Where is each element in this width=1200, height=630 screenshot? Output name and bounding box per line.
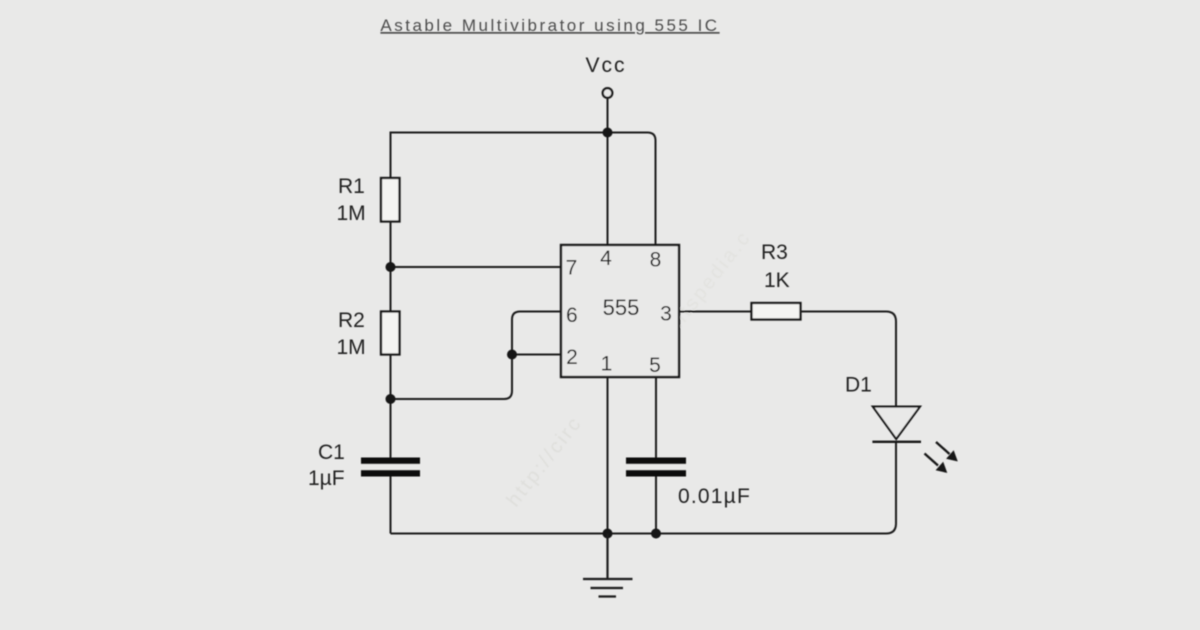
LED emission arrow 1	[936, 442, 957, 460]
wire: Vcc stem	[607, 98, 609, 133]
wire: top rail from R1 to pin 8 corner	[391, 133, 656, 246]
wire: pin 6 elbow down to pin 2 level	[391, 312, 562, 400]
resistor R1	[381, 178, 400, 222]
svg-text:8: 8	[650, 249, 662, 272]
svg-text:555: 555	[603, 295, 640, 320]
wire: C2 bottom to ground rail	[655, 477, 657, 534]
svg-text:1M: 1M	[337, 336, 366, 359]
resistor R3	[752, 303, 801, 320]
wire: pin 2 stub	[512, 354, 561, 356]
svg-text:D1: D1	[845, 374, 872, 397]
svg-text:R2: R2	[338, 309, 365, 332]
svg-text:R1: R1	[338, 175, 365, 198]
svg-text:5: 5	[649, 354, 661, 377]
svg-text:Astable Multivibrator using 55: Astable Multivibrator using 555 IC	[380, 16, 719, 35]
wire: pin 1 to ground rail	[607, 377, 609, 534]
watermark	[503, 412, 587, 511]
wire: R3 to LED anode	[801, 312, 897, 408]
wire: C1 bottom to ground rail	[390, 477, 392, 534]
svg-text:C1: C1	[318, 441, 345, 464]
resistor R2	[381, 312, 400, 355]
Vcc terminal circle	[603, 88, 613, 98]
node A: R1/R2/pin7 junction	[386, 262, 396, 272]
svg-text:2: 2	[566, 346, 578, 369]
svg-text:7: 7	[566, 257, 578, 280]
wire: pin 5 to bypass cap	[655, 377, 657, 458]
svg-text:3: 3	[660, 303, 672, 326]
svg-text:0.01µF: 0.01µF	[678, 485, 751, 508]
svg-text:R3: R3	[761, 241, 788, 264]
capacitor C2 0.01uF	[626, 458, 686, 477]
LED D1 triangle	[873, 407, 920, 439]
wire: pin 3 to R3	[679, 311, 752, 313]
capacitor C1	[361, 458, 420, 477]
node: pin2/pin6 junction	[507, 350, 517, 360]
ground	[583, 534, 633, 597]
wire: node A to pin 7	[391, 266, 562, 268]
svg-text:1µF: 1µF	[308, 467, 345, 490]
node: ground rail / C2 junction	[651, 529, 661, 539]
node: Vcc junction	[603, 128, 613, 138]
svg-text:4: 4	[600, 247, 612, 270]
svg-text:1K: 1K	[764, 269, 790, 292]
svg-text:1M: 1M	[337, 202, 366, 225]
watermark 2	[663, 227, 756, 338]
wire: R1 bottom to R2 top	[390, 222, 392, 312]
svg-text:1: 1	[601, 353, 613, 376]
node B: R2/C1/trigger junction	[386, 394, 396, 404]
wire: R2 bottom to C1 through node B	[390, 355, 392, 459]
LED emission arrow 2	[925, 454, 947, 472]
node: ground rail / pin1 junction	[603, 529, 613, 539]
op: 555 IC body U1	[561, 245, 679, 377]
wire: pin 4 drop from Vcc node	[607, 133, 609, 246]
LED D1 cathode bar	[872, 441, 921, 443]
svg-text:6: 6	[566, 304, 578, 327]
wire: bottom ground rail and LED return	[391, 441, 897, 534]
svg-text:Vcc: Vcc	[585, 54, 626, 77]
